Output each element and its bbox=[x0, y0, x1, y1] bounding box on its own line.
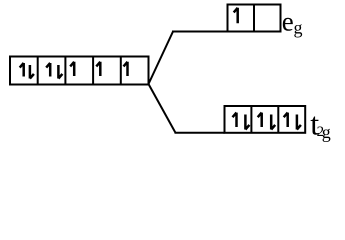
electron pair box 1: up arrow bbox=[20, 63, 24, 77]
e_g orbital box row outline bbox=[228, 5, 281, 32]
electron pair t_2g box 3: down arrow bbox=[297, 115, 301, 130]
svg-text:g: g bbox=[294, 18, 303, 38]
t_2g box divider 1 bbox=[250, 106, 252, 133]
splitting wire: lower horizontal to t_2g bbox=[175, 132, 225, 134]
electron pair box 2: down arrow bbox=[58, 65, 62, 79]
splitting wire: lower diagonal bbox=[149, 84, 176, 133]
electron pair box 1: down arrow bbox=[30, 65, 34, 79]
electron pair t_2g box 2: down arrow bbox=[271, 115, 275, 130]
t_2g box divider 2 bbox=[277, 106, 279, 133]
single electron e_g box 1: up arrow bbox=[234, 8, 238, 23]
e_g box divider bbox=[253, 5, 255, 32]
box divider 4 bbox=[120, 57, 122, 85]
box divider 3 bbox=[92, 57, 94, 85]
free-ion d-orbital box row outline bbox=[10, 57, 149, 85]
splitting wire: upper horizontal to e_g bbox=[172, 31, 228, 33]
electron pair box 2: up arrow bbox=[46, 63, 50, 77]
single electron box 4: up arrow bbox=[96, 62, 100, 76]
box divider 1 bbox=[37, 57, 39, 85]
splitting wire: upper diagonal bbox=[149, 32, 174, 85]
electron pair t_2g box 1: up arrow bbox=[233, 113, 237, 127]
single electron box 3: up arrow bbox=[70, 62, 74, 76]
single electron box 5: up arrow bbox=[124, 62, 128, 76]
svg-text:e: e bbox=[282, 7, 294, 37]
svg-text:g: g bbox=[322, 122, 331, 142]
electron pair t_2g box 2: up arrow bbox=[258, 113, 262, 127]
box divider 2 bbox=[64, 57, 66, 85]
electron pair t_2g box 1: down arrow bbox=[245, 115, 249, 130]
t_2g orbital box row outline bbox=[225, 106, 306, 133]
electron pair t_2g box 3: up arrow bbox=[284, 113, 288, 127]
